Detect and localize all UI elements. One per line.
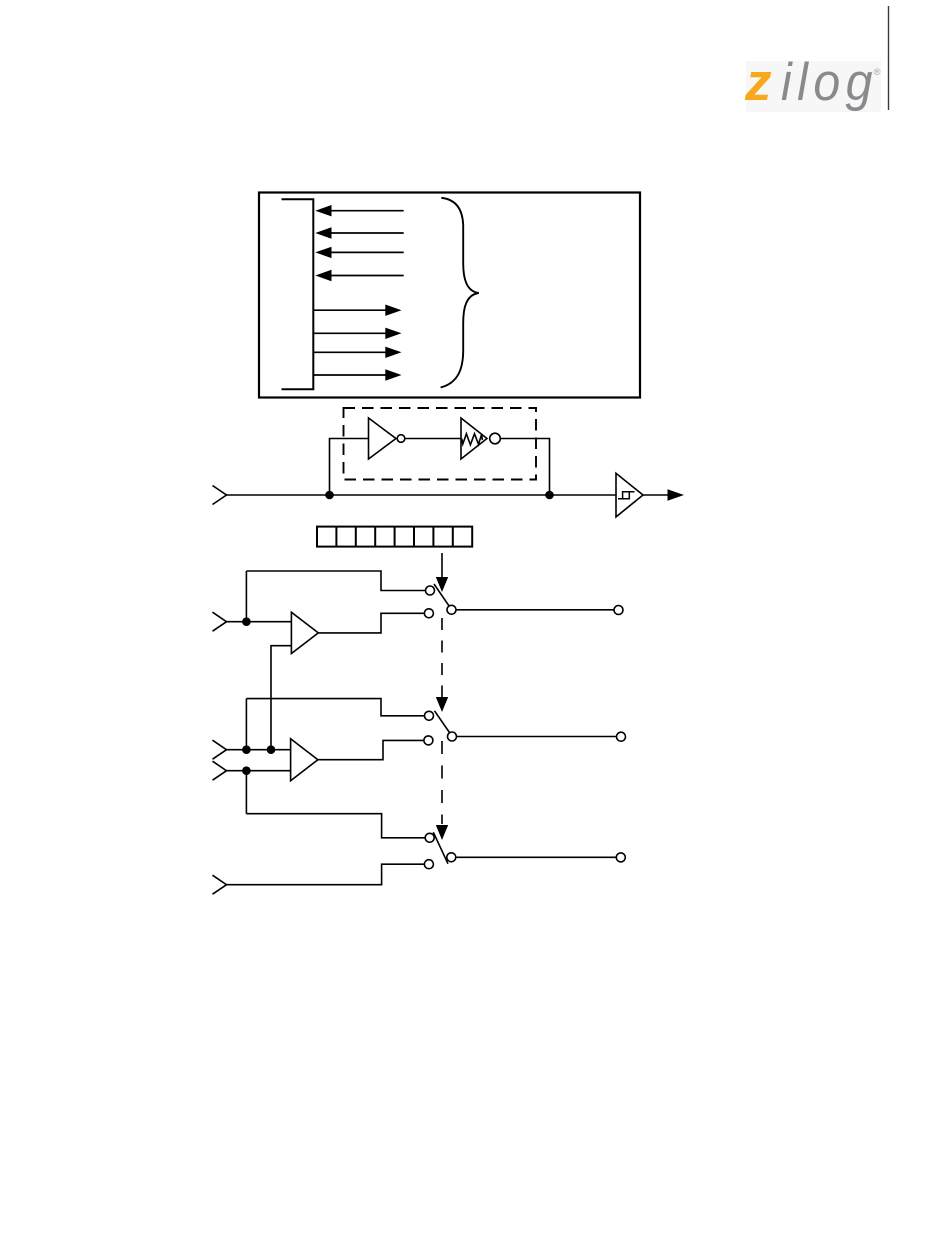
control line segment 1 xyxy=(441,553,443,578)
wire: vertical to input 2a xyxy=(245,699,247,750)
control arrowhead 3 xyxy=(436,825,448,840)
inverter U1 xyxy=(369,418,405,459)
wire: input 2b xyxy=(226,770,291,772)
register: 8-bit data register xyxy=(317,527,472,547)
zilog logo xyxy=(744,53,881,112)
SW2 output terminal xyxy=(617,732,626,741)
wire: SW2 upper contact feed xyxy=(246,699,426,716)
node: input 2a junction left xyxy=(242,745,251,754)
schmitt trigger U3 xyxy=(616,473,643,517)
wire: SW1 upper contact feed xyxy=(246,571,427,591)
switch SW3 lever xyxy=(433,832,448,864)
bus arrow in 2 xyxy=(315,227,403,238)
node: pull-up left junction xyxy=(325,491,334,500)
bus arrow in 3 xyxy=(315,247,403,258)
control line segment 2 (dashed) xyxy=(441,618,443,697)
wire: input 1 xyxy=(226,621,291,623)
dashed box: pull-up enable xyxy=(344,408,537,480)
wire: SW3 output xyxy=(456,856,617,858)
bus arrow out 2 xyxy=(313,328,401,339)
bus arrow out 3 xyxy=(313,347,401,358)
SW1 output terminal xyxy=(614,606,623,615)
wire: Q1 output to SW1 lower contact xyxy=(318,613,425,633)
wire: input to inverter U1 xyxy=(330,439,369,496)
input chevron 2b xyxy=(213,761,227,780)
svg-text:z: z xyxy=(744,53,772,112)
bus arrow out 4 xyxy=(313,369,401,380)
wire: input 3 to SW3 lower contact xyxy=(226,864,425,885)
port pin bracket xyxy=(282,199,314,389)
switch SW1 lever xyxy=(434,584,450,607)
switch SW2 lever xyxy=(435,711,451,734)
node: input 2a junction right xyxy=(267,745,276,754)
wire: SW3 upper contact feed xyxy=(246,814,425,838)
bus arrow in 1 xyxy=(315,205,403,216)
control arrowhead 2 xyxy=(436,697,448,712)
inverter with pull-up resistor U2 xyxy=(461,418,500,459)
switch SW3 upper contact xyxy=(425,833,434,842)
wire: pad line xyxy=(226,494,616,496)
brace xyxy=(441,198,479,388)
bus arrow out 1 xyxy=(313,305,401,316)
input chevron 1 xyxy=(213,612,227,631)
svg-text:®: ® xyxy=(874,67,881,78)
block: port I/O outer box xyxy=(259,193,640,398)
wire: input 2a xyxy=(226,749,291,751)
wire: SW1 output xyxy=(456,609,615,611)
switch SW3 common xyxy=(447,853,456,862)
input chevron 3 xyxy=(213,875,227,894)
wire: U2 output down to pad line xyxy=(500,439,549,496)
bus arrow in 4 xyxy=(315,270,403,281)
buffer Q1 xyxy=(291,612,318,653)
svg-text:ilog: ilog xyxy=(781,53,878,112)
node: pull-up right junction xyxy=(545,491,554,500)
SW3 output terminal xyxy=(616,853,625,862)
switch SW2 upper contact xyxy=(425,711,434,720)
wire: vertical to input 1 xyxy=(245,571,247,622)
buffer Q2 xyxy=(291,739,318,781)
switch SW2 common xyxy=(448,732,457,741)
node: input 1 junction xyxy=(242,617,251,626)
wire: input 2b down to SW3 feed xyxy=(245,771,247,814)
control arrowhead 1 xyxy=(436,577,448,592)
switch SW2 lower contact xyxy=(424,736,433,745)
header rule xyxy=(888,6,890,110)
wire: SW2 output xyxy=(456,736,617,738)
node: input 2b junction xyxy=(242,766,251,775)
input chevron: pad xyxy=(213,486,227,505)
switch SW1 common xyxy=(447,605,456,614)
wire: U1 to U2 xyxy=(405,438,461,440)
control line segment 3 (dashed) xyxy=(441,741,443,824)
wire: Q1 enable xyxy=(271,646,291,750)
input chevron 2a xyxy=(213,740,227,759)
switch SW3 lower contact xyxy=(424,860,433,869)
output arrow xyxy=(643,489,685,500)
switch SW1 upper contact xyxy=(426,586,435,595)
switch SW1 lower contact xyxy=(424,609,433,618)
wire: Q2 output to SW2 lower contact xyxy=(318,740,425,759)
